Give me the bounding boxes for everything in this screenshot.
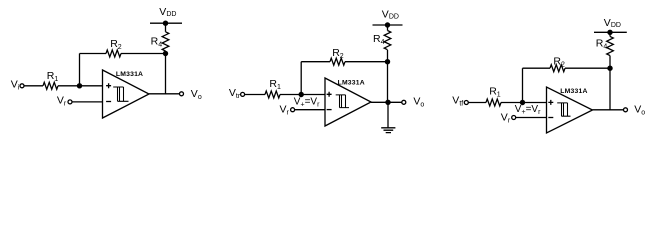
svg-text:VDD: VDD: [604, 17, 621, 29]
pin -: [106, 101, 111, 103]
wire feedback vertical: [79, 54, 81, 86]
svg-text:R1: R1: [47, 70, 59, 83]
power VDD rail: [594, 31, 627, 33]
resistor R4: [162, 32, 169, 51]
node A junction: [77, 83, 82, 88]
wire R2 to R4 node: [121, 53, 166, 55]
terminal Vo: [624, 108, 628, 112]
op-amp U3: [547, 87, 593, 133]
power VDD rail: [373, 24, 403, 26]
pin -: [327, 109, 332, 111]
svg-text:R2: R2: [110, 38, 122, 51]
node junction: [520, 100, 525, 105]
wire R4 to output node: [165, 51, 167, 94]
svg-text:LM331A: LM331A: [116, 71, 143, 78]
svg-text:LM331A: LM331A: [560, 88, 587, 95]
svg-text:Vtf: Vtf: [452, 95, 463, 108]
wire feedback vertical: [522, 68, 524, 102]
resistor R1: [265, 91, 280, 98]
wire R1 to op-amp + input: [58, 85, 103, 87]
wire Vr to op-amp - input: [295, 109, 325, 111]
pin +: [548, 100, 553, 105]
svg-text:VDD: VDD: [382, 9, 399, 21]
node junction: [299, 92, 304, 97]
svg-text:Vo: Vo: [634, 104, 645, 117]
terminal Vtr: [241, 92, 245, 96]
wire feedback horizontal to R2: [301, 61, 330, 63]
svg-text:R1: R1: [269, 78, 281, 91]
svg-text:Vr: Vr: [501, 112, 511, 125]
hysteresis symbol: [557, 103, 570, 116]
resistor R4: [607, 36, 614, 55]
svg-text:R4: R4: [151, 36, 163, 49]
wire R4 to output node: [387, 50, 389, 102]
terminal Vr: [291, 108, 295, 112]
resistor R1: [486, 99, 501, 106]
wire output: [149, 93, 180, 95]
svg-text:Vr: Vr: [57, 94, 67, 107]
wire R2 to R4 node: [565, 67, 610, 69]
wire R4 to output node: [609, 56, 611, 110]
resistor R2: [106, 50, 121, 57]
wire output to ground: [387, 102, 389, 128]
svg-text:Vo: Vo: [191, 88, 202, 101]
wire R1 to op-amp + input: [501, 102, 547, 104]
resistor R1: [43, 82, 58, 89]
resistor R2: [330, 58, 345, 65]
svg-text:Vtr: Vtr: [229, 87, 241, 100]
wire output: [371, 101, 402, 103]
hysteresis symbol: [336, 95, 349, 108]
pin +: [327, 92, 332, 97]
wire VDD to R4: [387, 25, 389, 31]
resistor R2: [550, 65, 565, 72]
pin -: [548, 117, 553, 119]
wire Vr to op-amp - input: [516, 117, 547, 119]
wire Vi to R1: [24, 85, 43, 87]
junction R2/R4: [163, 51, 168, 56]
wire feedback horizontal to R2: [80, 53, 107, 55]
wire R1 to op-amp + input: [280, 94, 325, 96]
svg-text:Vi: Vi: [11, 79, 20, 92]
svg-text:R2: R2: [332, 47, 344, 60]
power VDD rail: [150, 22, 182, 24]
op-amp U2: [325, 78, 371, 126]
svg-text:R4: R4: [596, 38, 608, 51]
junction VDD: [385, 22, 390, 27]
junction R2/R4: [385, 59, 390, 64]
wire VDD to R4: [165, 23, 167, 32]
svg-text:V+=Vr: V+=Vr: [515, 104, 541, 116]
wire feedback vertical: [300, 62, 302, 95]
svg-text:R4: R4: [373, 33, 385, 46]
hysteresis symbol: [113, 87, 128, 101]
terminal Vtf: [464, 101, 468, 105]
svg-text:VDD: VDD: [159, 6, 176, 18]
ground: [381, 128, 395, 133]
terminal Vi: [20, 84, 24, 88]
wire Vr to op-amp - input: [72, 101, 102, 103]
svg-text:V+=Vr: V+=Vr: [294, 97, 320, 109]
svg-text:Vo: Vo: [413, 96, 424, 109]
svg-text:Vr: Vr: [280, 104, 290, 117]
resistor R4: [384, 31, 391, 50]
wire VDD to R4: [609, 32, 611, 36]
svg-text:LM331A: LM331A: [338, 79, 365, 86]
pin +: [106, 83, 111, 88]
junction R2/R4: [607, 66, 612, 71]
op-amp U1: [103, 70, 150, 118]
junction VDD: [607, 30, 612, 35]
terminal Vo: [402, 100, 406, 104]
wire output: [593, 109, 624, 111]
wire feedback horizontal to R2: [523, 67, 551, 69]
wire R2 to R4 node: [345, 61, 388, 63]
svg-text:R2: R2: [553, 56, 565, 69]
junction output: [385, 100, 390, 105]
wire Vtr to R1: [245, 94, 265, 96]
wire Vtf to R1: [469, 102, 487, 104]
svg-text:R1: R1: [489, 86, 501, 99]
terminal Vr: [512, 116, 516, 120]
terminal Vo: [180, 92, 184, 96]
terminal Vr: [68, 100, 72, 104]
junction VDD: [163, 21, 168, 26]
